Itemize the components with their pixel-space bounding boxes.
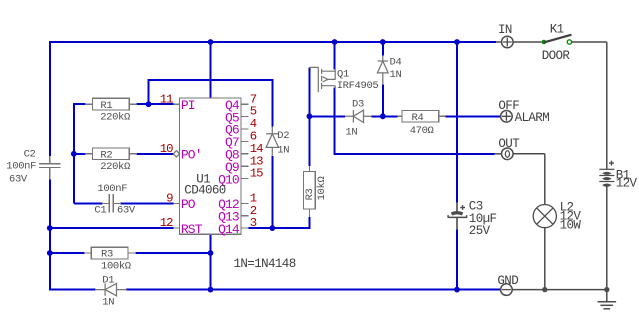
wire IC pin8 to bottom bus xyxy=(210,234,212,289)
wire bottom bus D1 to GND connector xyxy=(126,289,501,291)
svg-text:63V: 63V xyxy=(117,204,136,216)
junction R3 row / IC pin8 column xyxy=(208,250,214,256)
wire C1 to PO xyxy=(121,202,174,204)
svg-text:25V: 25V xyxy=(469,224,491,238)
svg-text:PO': PO' xyxy=(181,148,202,163)
svg-text:12V: 12V xyxy=(616,177,638,191)
resistor R3 10k (vertical) xyxy=(304,166,316,217)
svg-text:10W: 10W xyxy=(560,218,582,232)
svg-text:220kΩ: 220kΩ xyxy=(100,112,130,124)
connector GND xyxy=(501,284,513,296)
right pin stubs Q4..Q14 xyxy=(241,104,249,228)
svg-text:1N: 1N xyxy=(102,297,114,309)
diode D1 xyxy=(95,283,127,295)
svg-text:9: 9 xyxy=(166,192,173,206)
svg-text:K1: K1 xyxy=(550,22,564,36)
diode D3 xyxy=(345,110,372,122)
svg-text:10: 10 xyxy=(160,142,173,156)
svg-text:D1: D1 xyxy=(102,274,114,286)
wire feedback PI to D2 top xyxy=(148,79,273,126)
svg-text:IRF4905: IRF4905 xyxy=(337,80,379,92)
svg-text:R1: R1 xyxy=(100,100,112,112)
junction R1 / PI / feedback xyxy=(146,101,152,107)
svg-text:R4: R4 xyxy=(412,112,424,124)
resistor R3 100k xyxy=(84,247,136,259)
svg-text:10kΩ: 10kΩ xyxy=(316,177,328,201)
junction bottom bus / C3 xyxy=(454,287,460,293)
svg-text:C2: C2 xyxy=(24,148,36,160)
wire C3 column from top bus xyxy=(456,41,458,202)
wire D4 bottom to R4 node xyxy=(382,84,384,117)
svg-text:63V: 63V xyxy=(9,174,28,186)
svg-text:OUT: OUT xyxy=(498,137,520,151)
pin 10 PO' stub (inverted diamond) xyxy=(173,151,179,157)
switch K1 DOOR xyxy=(513,41,541,43)
resistor R4 xyxy=(398,110,446,122)
wire D4 top from bus xyxy=(382,41,384,56)
svg-text:470Ω: 470Ω xyxy=(410,125,434,137)
junction top bus / D4 xyxy=(380,39,386,45)
wire IC pin16 from top bus xyxy=(210,42,212,98)
wire R3 row left xyxy=(50,252,85,254)
wire Q1 source from top bus xyxy=(334,41,336,70)
svg-text:GND: GND xyxy=(497,274,518,288)
wire D2 bottom to Q14 row xyxy=(271,156,273,228)
wire GND row (gray) xyxy=(512,289,607,291)
IC U1 CD4060 box xyxy=(180,98,242,234)
junction gate node xyxy=(307,113,313,119)
svg-text:1N: 1N xyxy=(277,145,289,157)
junction top bus / IC pin16 xyxy=(208,39,214,45)
svg-text:3: 3 xyxy=(250,216,257,230)
junction left bus / RST xyxy=(47,225,53,231)
wire RST row xyxy=(50,227,174,229)
wire D3 anode to D4/R4 node xyxy=(372,115,398,117)
capacitor C1 xyxy=(102,194,121,212)
wire gate column up to Q1 gate xyxy=(308,67,310,117)
svg-text:DOOR: DOOR xyxy=(542,49,571,63)
capacitor C2 xyxy=(39,156,61,180)
svg-text:CD4060: CD4060 xyxy=(184,183,226,197)
svg-text:12: 12 xyxy=(160,216,173,230)
svg-text:Q1: Q1 xyxy=(337,69,349,81)
diode D4 xyxy=(377,56,388,85)
diode D2 xyxy=(266,126,278,155)
lamp L2 xyxy=(533,205,556,291)
svg-text:R3: R3 xyxy=(304,188,316,200)
wire R3 row right xyxy=(135,252,210,254)
junction top bus / Q1 source xyxy=(332,39,338,45)
svg-text:15: 15 xyxy=(250,167,263,181)
junction D2 / Q14 row xyxy=(269,225,275,231)
svg-text:R3: R3 xyxy=(101,249,113,261)
junction battery / GND row (gray) xyxy=(604,287,609,292)
svg-text:Q14: Q14 xyxy=(218,222,240,237)
svg-text:D3: D3 xyxy=(352,99,364,111)
pin 12 RST stub xyxy=(173,227,179,229)
connector IN xyxy=(502,36,514,48)
svg-text:1N=1N4148: 1N=1N4148 xyxy=(234,257,296,271)
svg-text:100nF: 100nF xyxy=(6,161,36,173)
wire top bus +12V xyxy=(50,41,496,43)
svg-text:100kΩ: 100kΩ xyxy=(101,260,131,272)
junction R2 column xyxy=(71,151,77,157)
svg-text:D4: D4 xyxy=(390,57,402,69)
junction left bus / R3 row xyxy=(47,250,53,256)
wire C3 bottom to GND row xyxy=(456,229,458,290)
svg-text:1N: 1N xyxy=(390,69,402,81)
svg-text:C1: C1 xyxy=(94,204,106,216)
svg-text:1N: 1N xyxy=(345,126,357,138)
ground symbol xyxy=(598,290,617,309)
connector OUT xyxy=(502,148,514,160)
wire RC column (R1/R2/C1 left) xyxy=(74,103,103,203)
wire left bus upper (to C2) xyxy=(49,41,51,156)
junction lamp / GND row (gray) xyxy=(542,287,547,292)
svg-text:D2: D2 xyxy=(277,130,289,142)
svg-text:100nF: 100nF xyxy=(97,183,127,195)
wire R4 to OFF connector xyxy=(446,115,501,117)
svg-text:ALARM: ALARM xyxy=(515,111,550,125)
wire R2 row to PO' xyxy=(74,153,174,155)
wire battery to ground xyxy=(606,186,608,290)
svg-text:R2: R2 xyxy=(100,149,112,161)
svg-text:220kΩ: 220kΩ xyxy=(100,161,130,173)
svg-text:PI: PI xyxy=(181,98,195,113)
resistor R1 xyxy=(85,98,137,110)
wire bottom bus left of D1 xyxy=(50,289,96,291)
wire R3(10k) top to gate node xyxy=(308,116,310,166)
resistor R2 xyxy=(85,148,137,160)
connector OFF xyxy=(501,111,513,123)
battery B1 xyxy=(606,42,608,169)
pin 11 PI stub xyxy=(173,103,179,105)
svg-text:RST: RST xyxy=(181,222,203,237)
capacitor C3 (polarized) xyxy=(448,202,467,229)
junction D4 / R4 node xyxy=(380,113,386,119)
svg-text:PO: PO xyxy=(181,197,196,212)
junction bottom bus / IC pin8 column xyxy=(208,287,214,293)
pin 9 PO stub xyxy=(173,202,179,204)
wire left bus lower (C2 to bottom bus) xyxy=(49,180,51,291)
wire Q14 row pin3 xyxy=(248,217,309,229)
transistor Q1 IRF4905 xyxy=(309,67,335,92)
wire R1 row to PI xyxy=(137,103,174,105)
svg-text:11: 11 xyxy=(160,92,173,106)
wire OUT to lamp (gray) xyxy=(513,154,545,205)
wire gate node to D3 cathode xyxy=(309,115,345,117)
wire Q1 drain to OUT row xyxy=(334,88,495,154)
svg-text:IN: IN xyxy=(498,23,512,37)
junction top bus / C3 column xyxy=(454,39,460,45)
